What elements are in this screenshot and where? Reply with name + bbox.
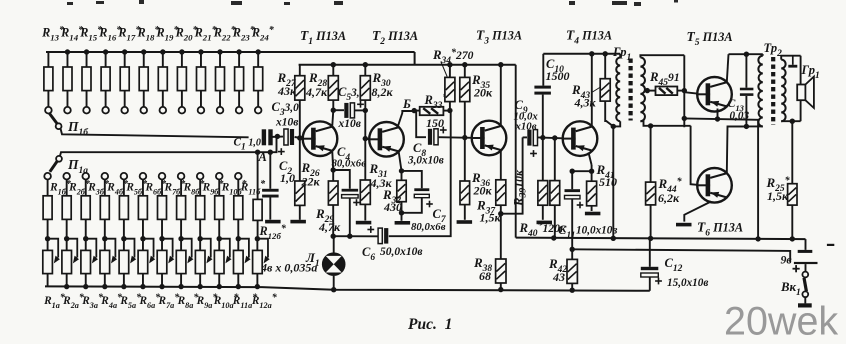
- contact and resistor R8б*: [177, 173, 186, 239]
- wire: C3 to T1 base: [295, 137, 303, 138]
- svg-text:х10в: х10в: [515, 121, 537, 133]
- transformer Тр2 core: [771, 57, 775, 125]
- wire: T6 collector riser to Тр2 primary bottom: [727, 126, 747, 173]
- wire: T5 emitter drop: [715, 109, 720, 122]
- plus sign of C7: [426, 201, 433, 208]
- switch П1а arm and pivot: [50, 156, 62, 172]
- svg-text:1,5к: 1,5к: [767, 189, 789, 203]
- wire: T5 base lead: [684, 92, 697, 93]
- ground of R36: [457, 220, 473, 224]
- transformer Тр1 secondary: [640, 55, 690, 126]
- wire: C9 to T4 base: [538, 136, 563, 139]
- wire: bottom bus: [45, 286, 650, 290]
- capacitor C6 50,0x10в (electrolytic): [378, 228, 388, 244]
- resistor R37 1,5к: [496, 180, 506, 217]
- wire: rail drop to negative rail: [515, 65, 517, 238]
- junction C10/R39 on T4 base wire: [540, 135, 545, 140]
- transistor T3: [472, 121, 507, 156]
- resistor R44* 6,2к: [646, 123, 656, 241]
- resistor R31 4,3к: [360, 139, 370, 221]
- svg-text:80,0х6в: 80,0х6в: [332, 158, 367, 170]
- capacitor C8 3,0x10в (electrolytic): [414, 111, 426, 138]
- plus sign of C3: [278, 148, 285, 155]
- wire: main top bus: [46, 51, 415, 53]
- transformer Тр1 core: [628, 59, 632, 121]
- resistor R26 22к: [295, 138, 305, 220]
- contact and resistor R6б*: [138, 173, 147, 239]
- wire: C5 to T2 base column: [355, 109, 366, 111]
- transistor T2: [369, 122, 404, 157]
- trimmer resistor R9а*: [195, 236, 212, 289]
- node Б junction: [412, 108, 417, 113]
- resistor R17* (top bank): [120, 49, 129, 113]
- contact and resistor R5б*: [119, 173, 128, 239]
- junction C4 on rail: [347, 234, 352, 239]
- wire: Тр1 secondary bottom to T6 base: [691, 126, 698, 185]
- trimmer resistor R2а*: [62, 236, 79, 289]
- resistor R15* (top bank): [82, 49, 91, 113]
- wire: emitter rail to C6: [333, 235, 378, 237]
- resistor R12б*: [253, 152, 262, 239]
- wire: T5 emitter rail to negative rail: [684, 118, 758, 238]
- svg-text:20к: 20к: [473, 184, 493, 198]
- minus sign of battery: [827, 244, 834, 246]
- speaker Гр1: [797, 56, 814, 122]
- resistor R20* (top bank): [177, 49, 186, 113]
- svg-text:х10в: х10в: [275, 117, 298, 129]
- resistor R40* 120к: [550, 138, 560, 241]
- plus sign of C12: [655, 278, 662, 285]
- wire: T4 collector rail: [543, 53, 620, 55]
- switch Вк1: [802, 272, 808, 304]
- contact and resistor R3б*: [81, 173, 90, 239]
- svg-text:20wek: 20wek: [724, 300, 838, 344]
- svg-text:1500: 1500: [546, 69, 570, 83]
- trimmer resistor R4а*: [100, 236, 117, 289]
- svg-text:24в х 0,035а: 24в х 0,035а: [254, 261, 317, 275]
- resistor R42 43: [567, 259, 577, 293]
- svg-text:150: 150: [426, 116, 444, 130]
- switch П1б arm and pivot: [50, 114, 62, 130]
- junction T1 base divider: [297, 135, 302, 140]
- resistor R34* 270: [445, 62, 455, 111]
- wire: T2 collector to node Б: [398, 111, 414, 127]
- svg-text:15,0х10в: 15,0х10в: [667, 277, 708, 289]
- contact and resistor R2б*: [62, 173, 71, 239]
- contact and resistor R10б*: [215, 173, 224, 239]
- resistor R24* (top bank): [254, 49, 263, 113]
- wire: Тр2 collector top wire: [729, 53, 763, 55]
- ground of T6 emitter: [676, 223, 692, 227]
- ground of R31: [356, 221, 372, 225]
- svg-text:80,0х6в: 80,0х6в: [411, 221, 446, 233]
- svg-text:68: 68: [479, 269, 491, 283]
- wire: T4 emitter: [570, 153, 595, 174]
- transformer Тр2 primary: [728, 54, 763, 126]
- svg-text:8,2к: 8,2к: [372, 85, 394, 99]
- transistor T4: [563, 121, 598, 156]
- capacitor C4 80,0x6в: [333, 170, 350, 189]
- wire: C11 down to R42: [571, 249, 573, 259]
- plus sign of C6: [367, 226, 374, 233]
- resistor R13* (top bank): [44, 52, 53, 113]
- plus sign of C11: [577, 202, 584, 209]
- trimmer resistor R10а*: [214, 236, 231, 289]
- transformer Тр2 secondary: [781, 56, 800, 122]
- ground of R39: [537, 221, 553, 225]
- svg-text:22к: 22к: [301, 175, 321, 189]
- trimmer resistor R1а*: [43, 236, 60, 286]
- svg-text:Б: Б: [402, 97, 411, 111]
- wire: C6 to R33/R34 node: [389, 110, 451, 236]
- svg-text:43: 43: [552, 270, 565, 284]
- trimmer resistor R12а*: [253, 236, 270, 289]
- screen stub on Тр2 secondary: [788, 56, 797, 68]
- wire: C8 to T3 base: [439, 136, 472, 139]
- plus sign of C8: [440, 127, 447, 134]
- resistor R14* (top bank): [63, 49, 72, 113]
- resistor R16* (top bank): [101, 49, 110, 113]
- ground of R32: [395, 221, 411, 225]
- contact and resistor R9б*: [196, 173, 205, 239]
- wire: Тр1 secondary top to T5 base: [682, 55, 687, 127]
- wire: R37 to C9 elbow: [501, 137, 523, 213]
- resistor R36 20к: [460, 138, 470, 220]
- svg-text:43к: 43к: [277, 84, 297, 98]
- plus sign of C5: [357, 101, 364, 108]
- plus sign of C9: [530, 150, 537, 157]
- contact and resistor R4б*: [100, 173, 109, 239]
- svg-text:1,5к: 1,5к: [480, 211, 502, 225]
- resistor R28 4,7к: [328, 62, 338, 110]
- wire: T6 emitter to ground: [684, 202, 711, 222]
- trimmer resistor R11а*: [234, 236, 251, 289]
- resistor R18* (top bank): [139, 49, 148, 113]
- transformer Тр1 primary: [613, 54, 620, 127]
- contact and resistor R7б*: [158, 173, 167, 239]
- capacitor C3 3,0x10в: [284, 129, 294, 145]
- resistor R33* 150 (horizontal): [414, 107, 449, 115]
- cropped text remnants at top edge: [67, 0, 678, 6]
- wire: T1 collector riser: [332, 110, 333, 125]
- svg-text:10,0х10в: 10,0х10в: [576, 225, 617, 237]
- svg-text:х10в: х10в: [338, 118, 361, 130]
- node A junction: [275, 134, 280, 139]
- svg-text:20к: 20к: [473, 86, 493, 100]
- resistor R45 91 (horizontal): [645, 87, 685, 96]
- ground of battery: [798, 303, 812, 307]
- resistor R25* 1,5к: [788, 119, 797, 242]
- trimmer resistor R8а*: [176, 236, 193, 289]
- wire: T3 emitter to R37: [500, 150, 502, 180]
- wire: T5 collector riser: [727, 54, 729, 82]
- contact and resistor R11б*: [234, 173, 243, 239]
- transistor T1: [303, 121, 338, 156]
- trimmer resistor R6а*: [138, 236, 155, 289]
- ground of C2: [265, 220, 281, 224]
- wire: bus corner down to bias rail: [414, 52, 416, 65]
- wire: C1 to node A: [269, 136, 284, 138]
- wire: П1б pole to C1: [61, 129, 249, 138]
- capacitor C10 1500: [542, 54, 544, 86]
- junction lamp on bottom bus: [331, 287, 336, 292]
- resistor R32 430: [397, 180, 406, 221]
- wire: T3 collector riser: [498, 62, 503, 126]
- resistor R22* (top bank): [216, 49, 225, 113]
- svg-text:Рис. 1: Рис. 1: [408, 316, 452, 333]
- capacitor C12 15,0x10в (electrolytic): [649, 238, 651, 266]
- capacitor C13 0,03: [745, 54, 747, 87]
- wire: T4 collector riser: [589, 51, 594, 126]
- wire: R37 down to R38: [500, 214, 502, 259]
- capacitor C9 10,0x10в (electrolytic): [523, 136, 527, 138]
- plus sign of battery: [793, 265, 800, 272]
- resistor R23* (top bank): [235, 49, 244, 113]
- wire: negative supply rail: [516, 238, 806, 240]
- wire: bias rail y65: [299, 64, 516, 66]
- wire: plus rail: [572, 249, 790, 262]
- resistor R27 43к: [295, 65, 305, 138]
- lamp Л1: [322, 236, 346, 290]
- capacitor C2 1,0: [268, 150, 273, 189]
- junction R12б on П1а wire: [255, 150, 260, 155]
- transistor T5: [697, 77, 732, 112]
- junction R29/lamp: [331, 234, 336, 239]
- capacitor C5 3,0 x10в: [333, 109, 344, 111]
- svg-text:4,7к: 4,7к: [318, 220, 341, 234]
- junction C13 top: [744, 52, 749, 57]
- resistor R35 20к: [460, 62, 470, 140]
- resistor R39 10к: [538, 138, 548, 220]
- resistor R30 8,2к: [360, 62, 370, 141]
- plus sign of C4: [353, 199, 360, 206]
- svg-text:430: 430: [383, 200, 402, 214]
- contact and resistor R1б*: [43, 173, 52, 239]
- junction R33/R34/C6: [447, 108, 452, 113]
- transistor T6: [697, 168, 732, 203]
- junction R40 on T4 base wire: [552, 135, 557, 140]
- wire: T2 emitter to R32: [399, 152, 404, 180]
- junction T1 collector node: [331, 108, 336, 113]
- capacitor C11 10,0x10в (electrolytic): [571, 171, 573, 189]
- trimmer resistor R3а*: [81, 236, 98, 289]
- svg-text:50,0х10в: 50,0х10в: [380, 246, 423, 258]
- svg-text:510: 510: [599, 175, 617, 189]
- wire: П1а pole wire to node A riser: [60, 136, 277, 156]
- wire: T1 emitter to R29: [331, 152, 336, 173]
- svg-text:6,2к: 6,2к: [658, 191, 680, 205]
- svg-text:4,3к: 4,3к: [574, 96, 597, 110]
- svg-text:9в: 9в: [781, 253, 793, 267]
- battery Б 9в: [794, 239, 818, 272]
- resistor R41 510: [587, 171, 597, 211]
- trimmer resistor R7а*: [157, 236, 174, 289]
- trimmer resistor R5а*: [119, 236, 136, 289]
- resistor R29 4,7к: [328, 170, 338, 236]
- svg-text:1,0: 1,0: [280, 171, 295, 185]
- resistor R38 68: [496, 259, 506, 292]
- resistor R43 4,3к: [600, 51, 616, 241]
- capacitor C7 80,0x6в: [402, 171, 422, 188]
- svg-text:0,03: 0,03: [730, 110, 750, 122]
- resistor R19* (top bank): [158, 49, 167, 113]
- resistor R21* (top bank): [197, 49, 206, 113]
- ground of R26: [290, 220, 306, 224]
- capacitor C1 1,0: [262, 129, 273, 145]
- svg-text:4,7к: 4,7к: [305, 85, 328, 99]
- ground of R41: [585, 212, 601, 216]
- svg-text:3,0х10в: 3,0х10в: [407, 155, 444, 167]
